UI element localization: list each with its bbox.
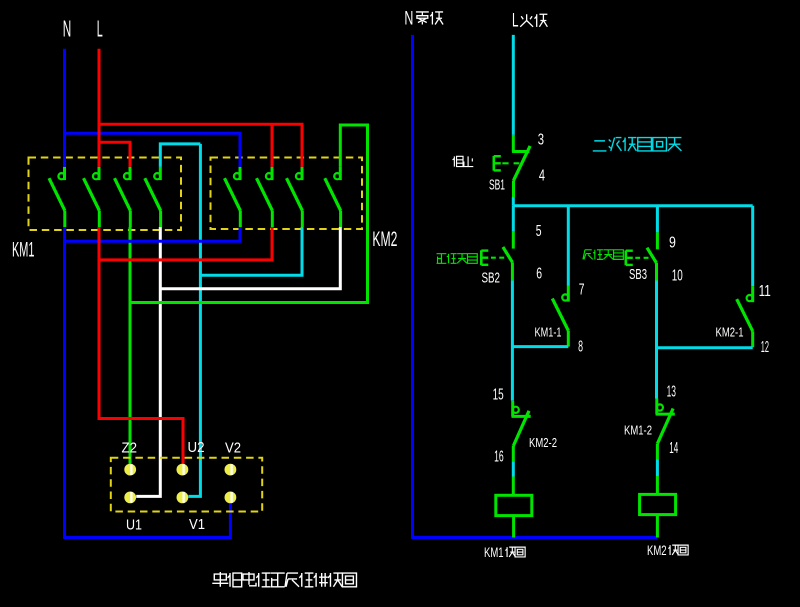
svg-text:N: N bbox=[63, 15, 71, 41]
wire KM1-1 bottom to branch join bbox=[512, 345, 568, 348]
svg-text:16: 16 bbox=[494, 449, 504, 466]
terminal V1 (screw) bbox=[177, 492, 189, 504]
svg-text:KM2: KM2 bbox=[647, 543, 667, 558]
svg-text:L: L bbox=[512, 11, 519, 32]
wire KM2-1 bottom to branch join bbox=[657, 346, 753, 349]
svg-text:KM1-2: KM1-2 bbox=[624, 423, 652, 438]
wire bus to KM1-1 bbox=[567, 206, 570, 286]
wire control bus (cyan) bbox=[513, 204, 752, 207]
title: secondary control circuit (cyan Chinese) bbox=[593, 138, 682, 151]
svg-text:U2: U2 bbox=[188, 439, 205, 456]
pushbutton SB1 (NC stop) bbox=[512, 135, 530, 197]
wire cyan loop KM1 pole4 top bbox=[160, 144, 200, 167]
wire red branch to KM1 pole3 bbox=[99, 142, 130, 167]
contactor KM2 enclosure (dashed box) bbox=[211, 158, 363, 230]
wire N feed (blue) into KM1 pole1 bbox=[63, 49, 66, 167]
contactor KM2 main contact pole1 bbox=[225, 167, 241, 227]
wire N line (blue) left rail down and across bottom bbox=[413, 35, 658, 538]
svg-text:V1: V1 bbox=[189, 516, 205, 533]
title: motor forward-reverse wiring diagram (Chinese) bbox=[212, 572, 356, 587]
wire white KM2 pole4 bottom branch bbox=[160, 227, 340, 289]
label stop (Chinese) bbox=[453, 156, 474, 166]
svg-text:KM1-1: KM1-1 bbox=[535, 325, 562, 340]
wire KM1 coil to N bus bbox=[512, 516, 515, 538]
svg-text:6: 6 bbox=[536, 265, 542, 282]
wire cyan KM2 pole3 bottom bbox=[200, 227, 302, 275]
wire cyan mid vertical to V1 bbox=[188, 144, 200, 497]
terminal U2 (screw) bbox=[177, 464, 189, 476]
contactor KM1 main contact pole1 bbox=[49, 167, 65, 227]
svg-text:V2: V2 bbox=[225, 439, 241, 456]
svg-text:SB3: SB3 bbox=[629, 266, 647, 283]
svg-text:SB2: SB2 bbox=[482, 270, 501, 287]
label L fire-line (L + Chinese) bbox=[512, 11, 547, 32]
svg-text:KM1: KM1 bbox=[484, 545, 504, 560]
contactor KM2 main contact pole2 bbox=[257, 167, 273, 227]
svg-text:7: 7 bbox=[579, 281, 585, 298]
svg-text:3: 3 bbox=[538, 132, 544, 149]
svg-text:Z2: Z2 bbox=[122, 440, 138, 457]
wire green loop KM2 pole4 top bbox=[130, 125, 368, 303]
contactor KM2 main contact pole4 bbox=[325, 167, 341, 227]
wire SB2 bottom down to KM2-2 bbox=[511, 280, 514, 400]
wire red bus to KM2 poles 2,3 bbox=[99, 124, 302, 167]
wire L feed (red) into KM1 pole2 bbox=[98, 49, 101, 167]
contact KM2-2 (NC interlock) bbox=[512, 401, 531, 462]
svg-text:5: 5 bbox=[536, 223, 542, 240]
svg-text:11: 11 bbox=[759, 283, 771, 300]
wire bus to SB3 bbox=[656, 206, 659, 233]
wire KM2 coil to N bus bbox=[656, 515, 659, 538]
pushbutton SB3 (NO reverse start) bbox=[647, 232, 657, 281]
wire SB1 bottom to bus bbox=[512, 197, 515, 206]
svg-text:15: 15 bbox=[493, 386, 504, 403]
wire blue KM2 pole1 bottom branch bbox=[65, 227, 241, 241]
wire white KM1 pole4 bottom to U1 bbox=[136, 227, 160, 496]
wire red KM1 pole2 bottom to U2 bbox=[99, 227, 183, 464]
wire green KM1 pole3 bottom to Z2 bbox=[129, 227, 132, 464]
label forward-start (Chinese, green) bbox=[437, 254, 478, 264]
svg-text:KM1: KM1 bbox=[12, 239, 35, 262]
label reverse-start (Chinese, green) bbox=[583, 250, 623, 260]
wire L line (cyan) down to SB1 bbox=[512, 35, 515, 135]
wire bus corner to KM2-1 bbox=[751, 206, 754, 286]
svg-text:L: L bbox=[97, 15, 103, 41]
contactor KM2 main contact pole3 bbox=[287, 167, 303, 227]
contactor KM1 enclosure (dashed box) bbox=[29, 158, 182, 231]
svg-text:KM2: KM2 bbox=[372, 228, 397, 251]
terminal V2t (screw) bbox=[225, 464, 237, 476]
svg-text:4: 4 bbox=[539, 167, 545, 184]
label KM2 coil (Chinese) bbox=[647, 543, 688, 558]
svg-text:U1: U1 bbox=[126, 517, 142, 534]
svg-text:12: 12 bbox=[761, 339, 769, 356]
label KM1 coil (Chinese) bbox=[484, 545, 525, 560]
contact KM1-1 (NO seal-in) bbox=[552, 286, 568, 347]
svg-text:KM2-2: KM2-2 bbox=[529, 435, 557, 450]
pushbutton SB2 (NO forward start) bbox=[503, 232, 513, 281]
SB2 actuator (E + dashed link) bbox=[481, 250, 504, 265]
terminal U1 (screw) bbox=[124, 492, 136, 504]
svg-text:N: N bbox=[404, 9, 413, 30]
svg-text:9: 9 bbox=[669, 235, 676, 252]
contact KM1-2 (NC interlock) bbox=[656, 399, 675, 460]
wire blue KM1 pole1 bottom to terminal bbox=[65, 227, 231, 538]
motor terminal block (dashed box) bbox=[111, 458, 262, 512]
wire KM2-2 to KM1 coil (cyan+green) bbox=[512, 462, 515, 477]
SB3 actuator (E + dashed link) bbox=[626, 250, 649, 265]
svg-text:SB1: SB1 bbox=[489, 177, 505, 194]
svg-text:14: 14 bbox=[669, 440, 678, 457]
wire bus to SB2 bbox=[512, 206, 515, 232]
wire KM1-2 to KM2 coil (cyan+green) bbox=[656, 460, 659, 477]
terminal V2b (screw) bbox=[225, 492, 237, 504]
svg-text:10: 10 bbox=[672, 268, 683, 285]
svg-text:13: 13 bbox=[667, 383, 676, 400]
contact KM2-1 (NO seal-in) bbox=[737, 286, 753, 347]
svg-text:KM2-1: KM2-1 bbox=[716, 325, 744, 340]
contactor KM1 main contact pole3 bbox=[115, 167, 131, 227]
coil KM2 (rectangle) bbox=[640, 494, 676, 514]
SB1 actuator (E + dashed link) bbox=[494, 156, 519, 171]
svg-text:8: 8 bbox=[578, 338, 583, 355]
label N zero-line (N + Chinese) bbox=[404, 9, 443, 30]
coil KM1 (rectangle) bbox=[496, 495, 532, 515]
contactor KM1 main contact pole4 bbox=[145, 167, 161, 227]
wire red KM2 pole2 bottom branch bbox=[99, 227, 272, 260]
contactor KM1 main contact pole2 bbox=[84, 167, 100, 227]
terminal Z2 (screw) bbox=[124, 464, 136, 476]
wire blue branch to KM2 pole1 bbox=[65, 133, 241, 167]
wire SB3 bottom down to KM1-2 bbox=[655, 281, 658, 399]
